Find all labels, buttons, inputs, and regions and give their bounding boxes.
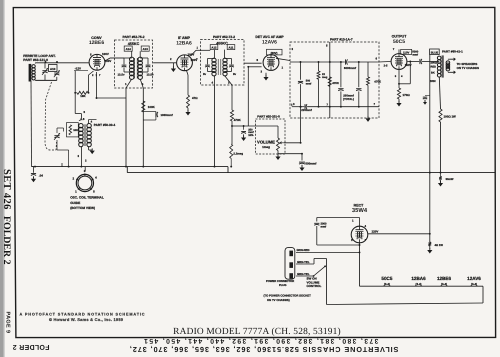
svg-text:100K: 100K — [148, 105, 156, 109]
svg-text:GRN-RED: GRN-RED — [297, 248, 310, 252]
svg-text:-12V: -12V — [75, 67, 81, 71]
svg-text:13.5v: 13.5v — [118, 73, 125, 77]
svg-text:5000mmf: 5000mmf — [344, 66, 356, 70]
svg-text:PLUG: PLUG — [279, 284, 286, 287]
svg-text:A14: A14 — [126, 47, 132, 51]
svg-text:GRN-YEL: GRN-YEL — [297, 272, 310, 276]
svg-text:GRN-YEL: GRN-YEL — [297, 260, 310, 264]
svg-text:470K: 470K — [234, 118, 242, 122]
svg-text:100V: 100V — [102, 52, 109, 56]
svg-text:100V: 100V — [191, 58, 198, 62]
svg-text:(TOTAL): (TOTAL) — [343, 97, 354, 101]
svg-text:110V: 110V — [403, 50, 410, 54]
svg-text:9v: 9v — [233, 72, 237, 76]
svg-text:(60V): (60V) — [271, 51, 278, 55]
svg-text:2.2meg: 2.2meg — [233, 151, 243, 155]
svg-text:SET 426: SET 426 — [1, 169, 12, 210]
svg-text:100V: 100V — [188, 53, 195, 57]
svg-text:(TO POWER CONNECTOR SOCKET: (TO POWER CONNECTOR SOCKET — [264, 293, 312, 297]
svg-text:120V: 120V — [372, 230, 379, 234]
svg-text:50C5: 50C5 — [393, 39, 405, 45]
svg-text:A10: A10 — [50, 67, 56, 71]
svg-text:170Ω: 170Ω — [403, 93, 411, 97]
svg-text:12BE6: 12BE6 — [437, 276, 451, 281]
svg-text:12BA6: 12BA6 — [176, 40, 192, 46]
svg-text:9v: 9v — [203, 72, 207, 76]
svg-text:500mmf: 500mmf — [305, 161, 316, 165]
svg-text:470K: 470K — [374, 79, 381, 83]
svg-text:mmf: mmf — [413, 53, 419, 56]
svg-text:BRN: BRN — [430, 80, 436, 83]
svg-text:SILVERTONE CHASSIS 528.51360,: SILVERTONE CHASSIS 528.51360, 362, 363, … — [129, 345, 398, 354]
svg-text:(3-4): (3-4) — [441, 282, 447, 286]
svg-text:PART #50-30-4: PART #50-30-4 — [94, 123, 116, 127]
svg-text:PART #52-75-2: PART #52-75-2 — [122, 35, 144, 39]
svg-text:ON TV CHASSIS): ON TV CHASSIS) — [267, 298, 290, 302]
svg-text:35W4: 35W4 — [352, 207, 368, 214]
svg-text:DET AVC AF AMP: DET AVC AF AMP — [255, 35, 284, 39]
svg-text:RECT: RECT — [354, 203, 365, 207]
svg-text:470K: 470K — [332, 81, 339, 85]
svg-text:12AV6: 12AV6 — [467, 276, 481, 281]
svg-text:FOLDER 2: FOLDER 2 — [1, 216, 12, 265]
svg-text:455KC: 455KC — [128, 42, 140, 46]
svg-text:4Ω 1W: 4Ω 1W — [435, 244, 444, 247]
svg-text:mmf: mmf — [306, 82, 312, 85]
svg-text:VOLUME: VOLUME — [257, 140, 275, 145]
svg-text:220mmf: 220mmf — [301, 108, 312, 112]
svg-text:PART #13-1A-7: PART #13-1A-7 — [330, 38, 353, 42]
svg-text:(3-4): (3-4) — [384, 282, 390, 286]
svg-text:47Ω: 47Ω — [192, 96, 198, 100]
svg-text:.04: .04 — [39, 174, 43, 178]
svg-text:A PHOTOFACT STANDARD NOTATION: A PHOTOFACT STANDARD NOTATION SCHEMATIC — [20, 312, 146, 316]
svg-text:PART #52-72-2: PART #52-72-2 — [213, 35, 235, 39]
svg-text:1meg: 1meg — [262, 145, 270, 149]
svg-text:100Ω 1W: 100Ω 1W — [444, 115, 457, 119]
svg-text:PART #80-41-1: PART #80-41-1 — [442, 49, 463, 53]
svg-text:ON TV CHASSIS: ON TV CHASSIS — [457, 66, 480, 70]
svg-text:OSC. COIL TERMINAL: OSC. COIL TERMINAL — [70, 195, 104, 199]
svg-text:BLUE: BLUE — [431, 51, 439, 54]
svg-text:FOLDER 2: FOLDER 2 — [12, 343, 49, 350]
svg-text:meg: meg — [322, 76, 328, 79]
svg-text:BK: BK — [431, 72, 435, 75]
svg-text:PART #20-201-0: PART #20-201-0 — [257, 115, 280, 119]
svg-text:A12: A12 — [211, 46, 217, 50]
svg-text:CONTROL: CONTROL — [307, 284, 322, 288]
svg-text:12BE6: 12BE6 — [89, 40, 105, 46]
svg-text:RED: RED — [431, 66, 437, 69]
svg-text:10K: 10K — [73, 129, 78, 132]
svg-text:GUIDE: GUIDE — [70, 201, 80, 205]
svg-text:PAGE 9: PAGE 9 — [4, 312, 10, 334]
svg-text:200Ω: 200Ω — [431, 62, 437, 65]
svg-text:A13: A13 — [143, 47, 149, 51]
svg-text:18K: 18K — [80, 94, 86, 98]
svg-text:12AV6: 12AV6 — [262, 39, 277, 45]
svg-text:mmf: mmf — [321, 225, 327, 228]
svg-text:373, 380, 381, 382, 390, 391,: 373, 380, 381, 382, 390, 391, 392, 440, … — [143, 337, 379, 344]
svg-text:1000mmf: 1000mmf — [161, 113, 173, 117]
svg-text:OUTPUT: OUTPUT — [392, 34, 408, 38]
svg-text:50C5: 50C5 — [381, 276, 392, 281]
svg-text:RADIO MODEL 7777A (CH. 528, 53: RADIO MODEL 7777A (CH. 528, 53191) — [173, 327, 341, 337]
svg-text:12BA6: 12BA6 — [411, 276, 426, 281]
svg-text:© Howard W. Sams & Co., Inc. 1: © Howard W. Sams & Co., Inc. 1959 — [49, 317, 124, 322]
svg-text:POWER CONNECTOR: POWER CONNECTOR — [266, 280, 294, 283]
svg-text:(BOTTOM VIEW): (BOTTOM VIEW) — [70, 206, 95, 210]
svg-text:(3-4): (3-4) — [471, 282, 477, 286]
svg-text:A11: A11 — [229, 46, 234, 50]
svg-text:(3-4): (3-4) — [416, 282, 422, 286]
svg-text:13.5v: 13.5v — [147, 73, 154, 77]
svg-text:PART #63-121-0: PART #63-121-0 — [23, 58, 48, 62]
svg-text:2-5: 2-5 — [384, 64, 388, 67]
svg-text:10%: 10% — [248, 134, 254, 137]
svg-text:30mW: 30mW — [446, 178, 454, 181]
